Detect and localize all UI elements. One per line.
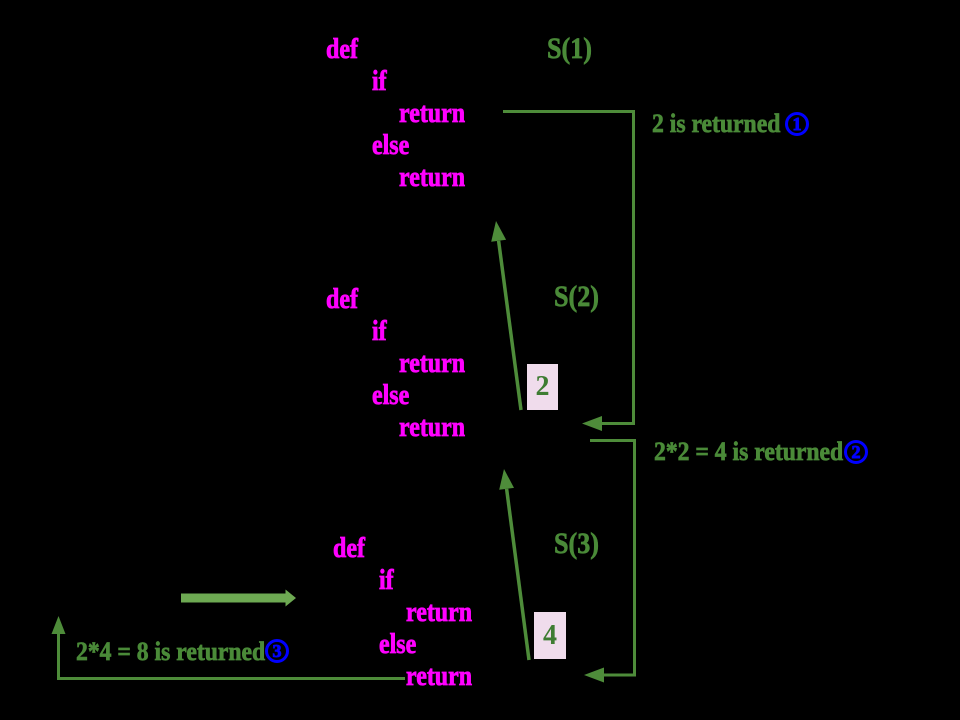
code block S(2): keyword return (else-branch) [399, 414, 465, 442]
code block S(1): keyword if [372, 68, 387, 96]
arrowhead of diagonal call arrow to S(2) [499, 469, 514, 490]
circled step number 3 [265, 639, 289, 663]
light green block arrow pointing at S(3) call [181, 590, 296, 607]
code block S(3): keyword if [379, 567, 394, 595]
annotation: 2 is returned [652, 111, 780, 137]
code block S(2): keyword else [372, 382, 409, 410]
code block S(1): keyword def [326, 36, 358, 64]
circled step number 1 [785, 112, 809, 136]
return bracket from S(1) return down to S(2) call site [503, 112, 634, 424]
label S(2) [554, 282, 599, 312]
label S(3) [554, 529, 599, 559]
code block S(2): keyword return (then-branch) [399, 350, 465, 378]
code block S(1): keyword else [372, 132, 409, 160]
circled step number 2 [844, 440, 868, 464]
code block S(2): keyword if [372, 318, 387, 346]
code block S(3): keyword return (then-branch) [406, 599, 472, 627]
arrowhead of S(2) return bracket [584, 668, 604, 683]
value box 4 (result of S(2)) [534, 612, 566, 659]
final return line from S(3) return to bottom-left [59, 634, 406, 679]
arrowhead of diagonal call arrow to S(1) [491, 221, 506, 242]
arrowhead of S(1) return bracket [582, 416, 602, 431]
annotation: 2*2 = 4 is returned [654, 439, 843, 465]
code block S(1): keyword return (else-branch) [399, 164, 465, 192]
code block S(3): keyword else [379, 631, 416, 659]
arrowhead of final return up arrow [52, 616, 66, 634]
diagonal call arrow from S(2) up to S(1) [499, 241, 521, 410]
label S(1) [547, 34, 592, 64]
code block S(1): keyword return (then-branch) [399, 100, 465, 128]
code block S(3): keyword return (else-branch) [406, 663, 472, 691]
return bracket from S(2) return down to S(3) call site [590, 441, 635, 676]
annotation: 2*4 = 8 is returned [76, 639, 265, 665]
value box 2 (result of S(1)) [527, 364, 558, 410]
diagonal call arrow from S(3) up to S(2) [507, 489, 529, 660]
code block S(3): keyword def [333, 535, 365, 563]
code block S(2): keyword def [326, 286, 358, 314]
